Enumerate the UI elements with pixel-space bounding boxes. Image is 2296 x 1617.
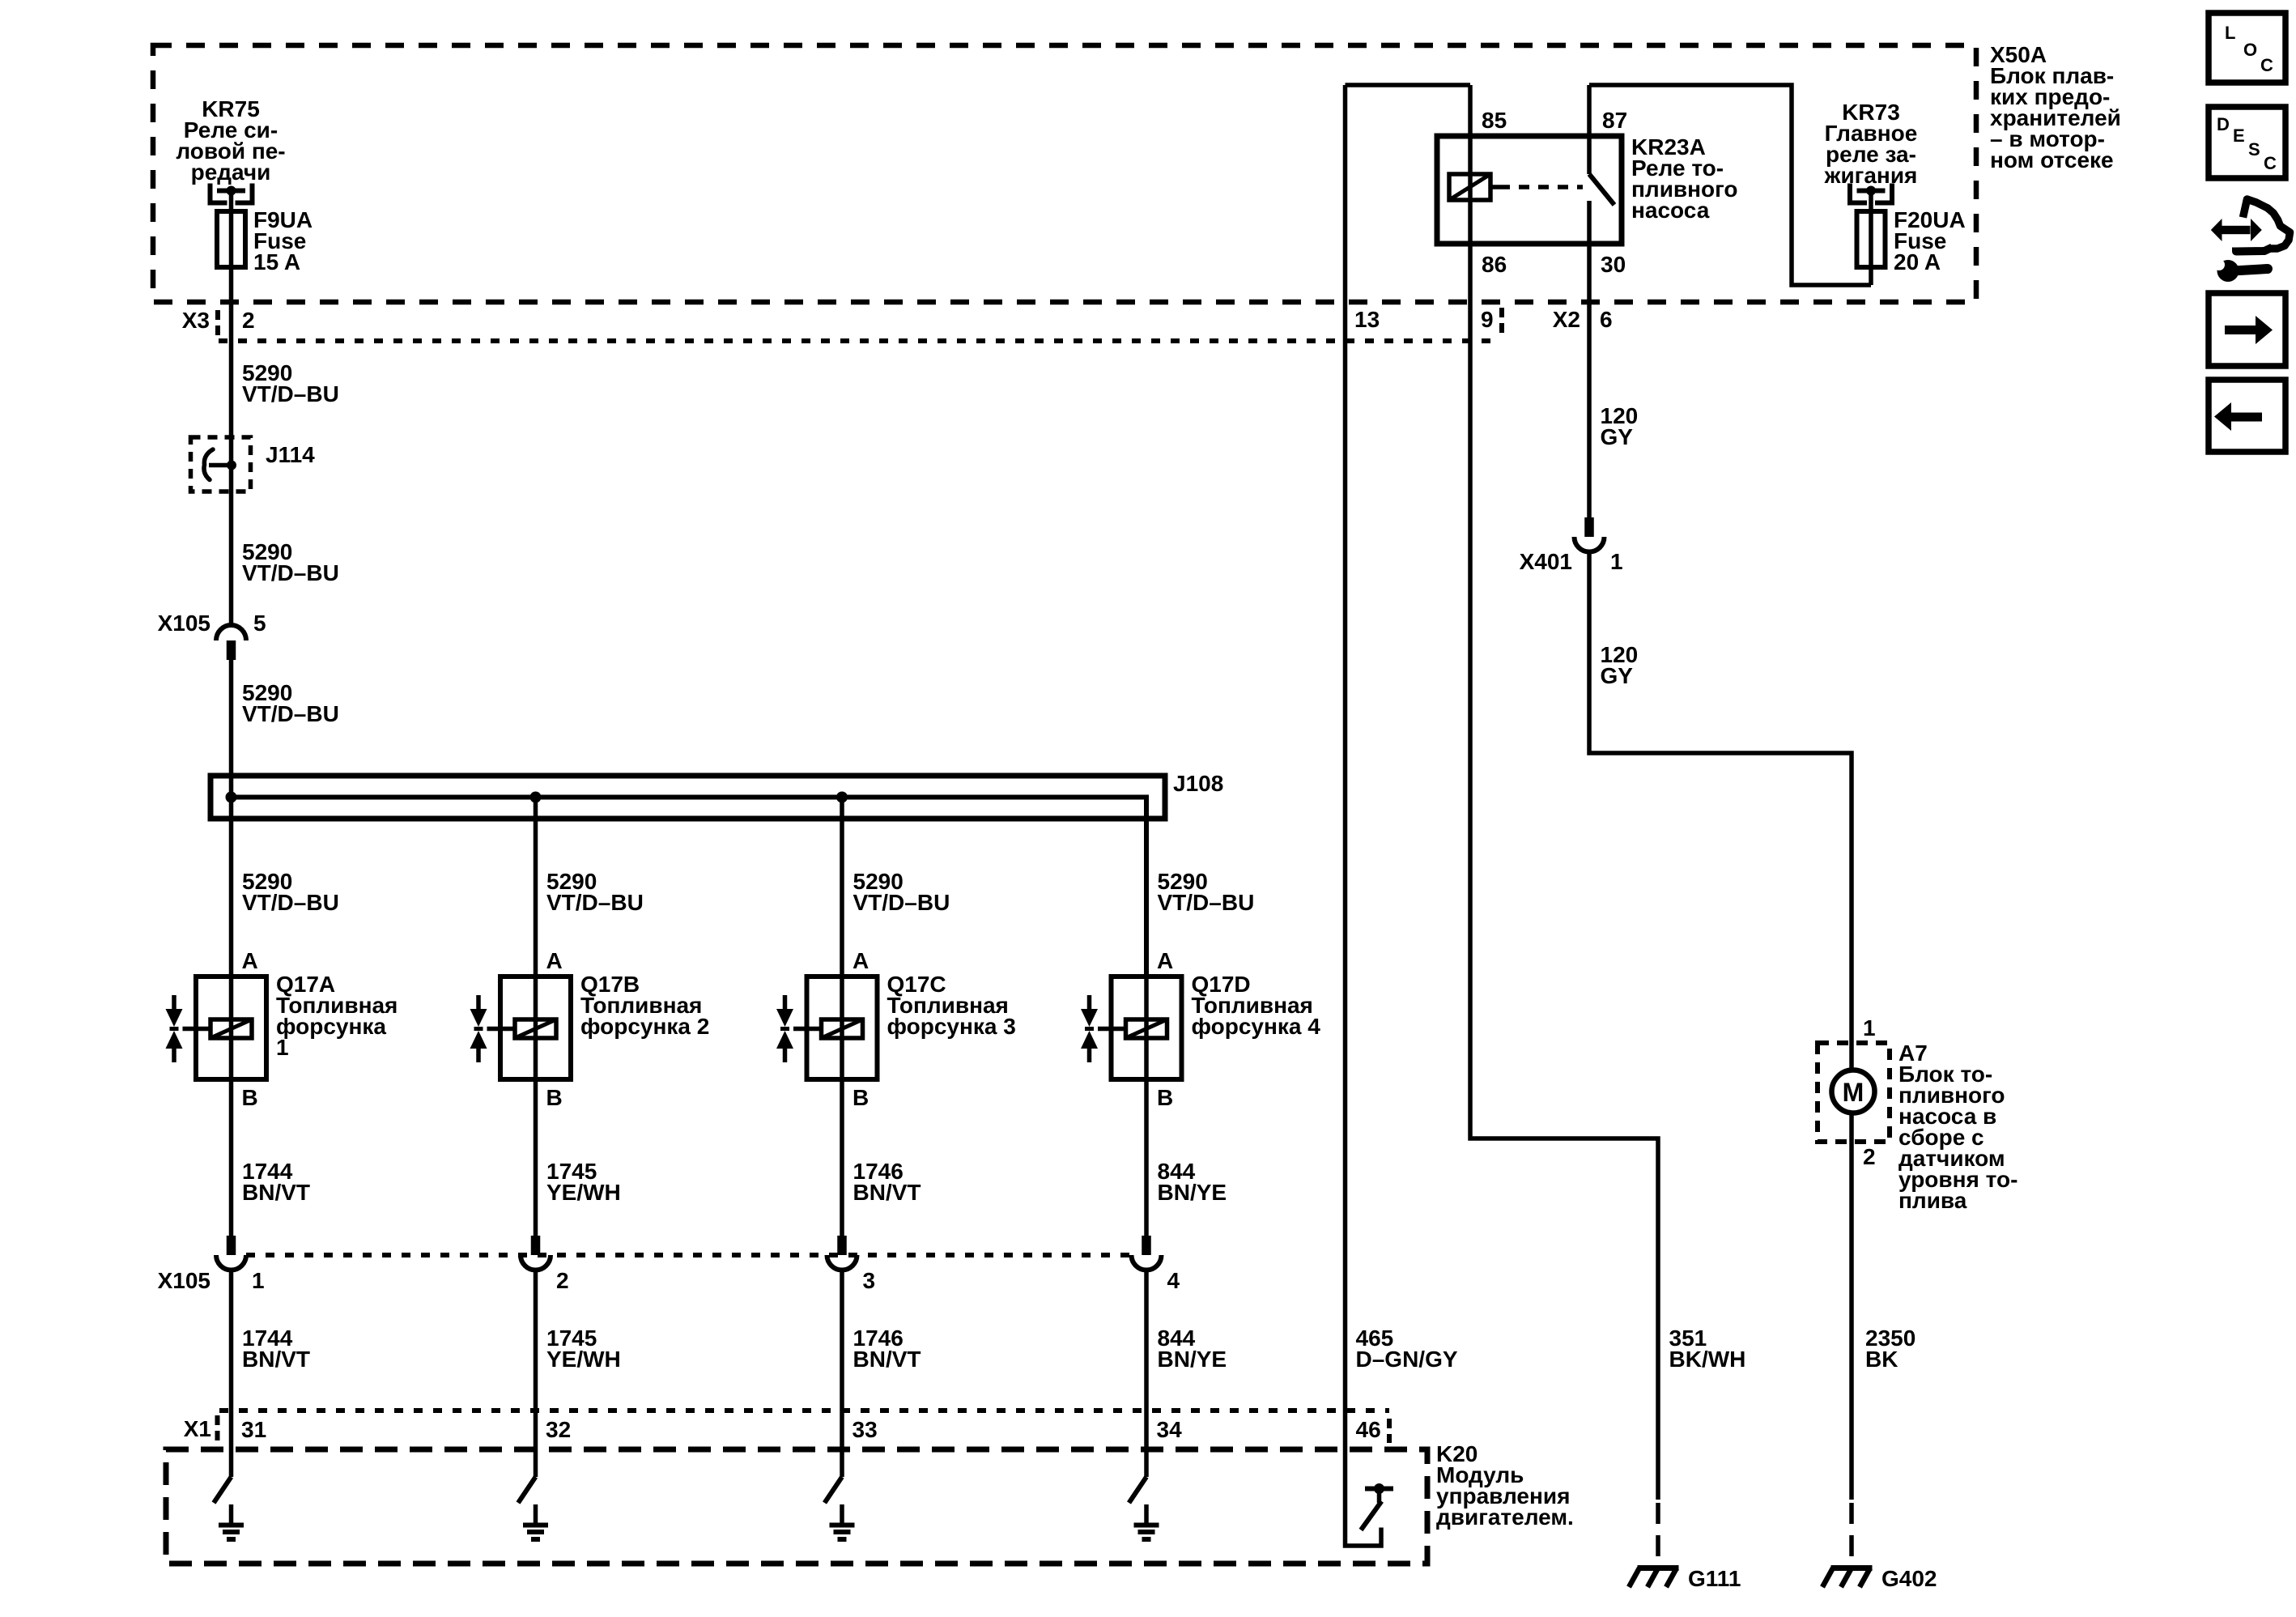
relay KR23A box bbox=[1437, 136, 1622, 244]
relay KR75 output terminal bbox=[210, 184, 227, 203]
K20 pin 46 switch lever bbox=[1361, 1501, 1382, 1530]
connector X105 pin 5 bbox=[216, 625, 246, 640]
wire 351 dashed segment bbox=[1656, 1503, 1660, 1565]
wire 844 injector Q17D to X105 bbox=[1144, 1079, 1149, 1236]
icon LOC box bbox=[2209, 13, 2285, 83]
svg-text:85: 85 bbox=[1482, 108, 1507, 133]
injector Q17D coil bbox=[1126, 1019, 1167, 1038]
icon vehicle outline bbox=[2243, 199, 2290, 249]
injector Q17D nozzle valve symbol bbox=[1087, 995, 1092, 1010]
svg-text:G111: G111 bbox=[1688, 1566, 1741, 1591]
injector Q17A nozzle link bbox=[183, 1027, 197, 1032]
svg-text:46: 46 bbox=[1356, 1417, 1381, 1442]
svg-text:X1: X1 bbox=[184, 1416, 211, 1441]
wire 5290 X105 pin 5 to splice J108 bbox=[229, 660, 234, 977]
svg-text:2: 2 bbox=[242, 308, 255, 333]
svg-text:1: 1 bbox=[276, 1035, 289, 1060]
wire 1746 injector Q17C to X105 bbox=[840, 1079, 844, 1236]
svg-text:X3: X3 bbox=[182, 308, 210, 333]
svg-text:1: 1 bbox=[1863, 1015, 1876, 1040]
K20 pin 46 switch T-bar bbox=[1365, 1487, 1393, 1491]
svg-text:YE/WH: YE/WH bbox=[546, 1347, 621, 1372]
connector X3 right bracket bbox=[1499, 308, 1504, 337]
connector X105 pin 1 bbox=[227, 1236, 236, 1255]
svg-text:5: 5 bbox=[253, 611, 266, 636]
svg-text:X2: X2 bbox=[1553, 307, 1580, 332]
connector X105 dashed line bbox=[246, 1253, 1132, 1257]
junction node injector 2 bbox=[530, 792, 542, 803]
svg-text:насоса: насоса bbox=[1631, 198, 1710, 223]
wire 2350 A7 to ground G402 bbox=[1849, 1142, 1854, 1500]
svg-text:GY: GY bbox=[1601, 663, 1634, 688]
svg-text:30: 30 bbox=[1601, 252, 1626, 277]
wire 844 X105 to K20 pin 34 bbox=[1144, 1270, 1149, 1478]
svg-text:VT/D–BU: VT/D–BU bbox=[242, 701, 339, 726]
svg-text:4: 4 bbox=[1167, 1268, 1180, 1293]
svg-text:M: M bbox=[1843, 1078, 1864, 1107]
svg-text:B: B bbox=[546, 1085, 563, 1110]
svg-text:VT/D–BU: VT/D–BU bbox=[546, 890, 644, 915]
svg-text:BN/VT: BN/VT bbox=[853, 1180, 921, 1205]
svg-text:9: 9 bbox=[1481, 307, 1494, 332]
injector Q17A box bbox=[196, 977, 266, 1079]
svg-text:редачи: редачи bbox=[191, 160, 271, 185]
svg-text:форсунка 4: форсунка 4 bbox=[1192, 1014, 1321, 1039]
icon arrow next box bbox=[2209, 293, 2285, 366]
svg-text:L: L bbox=[2225, 23, 2235, 43]
connector X105 pin 2 bbox=[531, 1236, 541, 1255]
injector Q17B box bbox=[500, 977, 571, 1079]
wire 1744 injector Q17A to X105 bbox=[229, 1079, 234, 1236]
svg-text:3: 3 bbox=[863, 1268, 876, 1293]
svg-text:S: S bbox=[2248, 139, 2260, 160]
injector Q17A internal wire bbox=[229, 977, 234, 1079]
splice clip J114 symbol bbox=[209, 463, 232, 468]
fuse block X50A dashed outline bbox=[153, 45, 1976, 302]
svg-text:C: C bbox=[2260, 55, 2273, 75]
ground G402 bbox=[1831, 1565, 1873, 1571]
injector Q17D nozzle link bbox=[1098, 1027, 1112, 1032]
junction node injector 1 bbox=[226, 792, 237, 803]
svg-text:33: 33 bbox=[852, 1417, 878, 1442]
wire 1746 X105 to K20 pin 33 bbox=[840, 1270, 844, 1478]
wire 5290 fuse F9UA to X105 pin 5 bbox=[229, 267, 234, 625]
injector Q17A coil bbox=[210, 1019, 252, 1038]
svg-text:B: B bbox=[1157, 1085, 1173, 1110]
wire 465 pin 13 to K20 pin 46 bbox=[1346, 85, 1382, 1546]
K20 driver switch 32 bbox=[518, 1477, 536, 1503]
connector X105 pin 4 bbox=[1142, 1236, 1151, 1255]
relay KR73 output terminal bbox=[1850, 184, 1867, 203]
signal ground inside K20 (31) bbox=[229, 1504, 234, 1524]
relay KR23A coil bbox=[1468, 85, 1473, 244]
svg-text:A: A bbox=[546, 948, 563, 973]
connector X1 left bracket bbox=[215, 1415, 220, 1441]
svg-text:BN/YE: BN/YE bbox=[1158, 1180, 1227, 1205]
injector Q17C box bbox=[807, 977, 878, 1079]
injector Q17D internal wire bbox=[1144, 977, 1149, 1079]
wire 120 X401 to fuel pump A7 bbox=[1589, 552, 1852, 1044]
wire 1745 X105 to K20 pin 32 bbox=[534, 1270, 538, 1478]
svg-text:13: 13 bbox=[1354, 307, 1380, 332]
signal ground inside K20 (34) bbox=[1144, 1504, 1149, 1524]
svg-text:20 A: 20 A bbox=[1894, 249, 1941, 274]
svg-text:15 A: 15 A bbox=[253, 249, 300, 274]
K20 driver switch 34 bbox=[1129, 1477, 1147, 1503]
svg-text:2: 2 bbox=[556, 1268, 569, 1293]
injector Q17B nozzle valve symbol bbox=[476, 995, 481, 1010]
injector Q17C internal wire bbox=[840, 977, 844, 1079]
svg-text:форсунка: форсунка bbox=[276, 1014, 386, 1039]
svg-text:B: B bbox=[852, 1085, 869, 1110]
injector Q17B nozzle link bbox=[487, 1027, 501, 1032]
connector X1 dotted line bbox=[219, 1408, 1389, 1413]
connector X401 pin 1 bbox=[1584, 517, 1594, 537]
svg-text:VT/D–BU: VT/D–BU bbox=[242, 381, 339, 406]
wire 2350 dashed segment bbox=[1849, 1503, 1854, 1565]
wire 120 relay pin 30 to X401 bbox=[1587, 302, 1592, 518]
svg-text:1: 1 bbox=[252, 1268, 265, 1293]
svg-text:34: 34 bbox=[1157, 1417, 1183, 1442]
wire top link pin13 to pin85 bbox=[1346, 83, 1471, 87]
svg-text:жигания: жигания bbox=[1824, 163, 1918, 188]
fuel pump module A7 dashed box bbox=[1818, 1043, 1890, 1142]
fuel pump motor M bbox=[1849, 1043, 1854, 1070]
module K20 dashed box bbox=[166, 1449, 1427, 1564]
svg-text:BK: BK bbox=[1865, 1347, 1898, 1372]
K20 driver switch 31 bbox=[214, 1477, 232, 1503]
signal ground inside K20 (32) bbox=[534, 1504, 538, 1524]
splice pack J108 bus bar bbox=[232, 798, 1147, 977]
wire 1744 X105 to K20 pin 31 bbox=[229, 1270, 234, 1478]
svg-text:G402: G402 bbox=[1881, 1566, 1937, 1591]
icon vehicle diagnostic double arrow bbox=[2222, 226, 2251, 234]
svg-text:D: D bbox=[2217, 114, 2230, 134]
svg-text:B: B bbox=[242, 1085, 258, 1110]
svg-text:ном отсеке: ном отсеке bbox=[1990, 147, 2114, 172]
svg-text:87: 87 bbox=[1602, 108, 1627, 133]
svg-text:1: 1 bbox=[1610, 549, 1623, 574]
svg-text:двигателем.: двигателем. bbox=[1436, 1504, 1574, 1530]
svg-text:D–GN/GY: D–GN/GY bbox=[1356, 1347, 1458, 1372]
icon DESC box bbox=[2209, 107, 2285, 178]
connector X3 dotted line bbox=[219, 338, 1500, 343]
splice clip J114 dashed box bbox=[191, 437, 251, 491]
icon wrench bbox=[2217, 260, 2239, 282]
splice pack J108 box bbox=[210, 776, 1165, 819]
wire 5290 J108 to injector Q17C bbox=[840, 798, 844, 977]
wire 5290 J108 to injector Q17B bbox=[534, 798, 538, 977]
svg-text:BN/YE: BN/YE bbox=[1158, 1347, 1227, 1372]
svg-text:BN/VT: BN/VT bbox=[853, 1347, 921, 1372]
svg-text:A: A bbox=[1157, 948, 1173, 973]
svg-text:31: 31 bbox=[241, 1417, 266, 1442]
svg-text:YE/WH: YE/WH bbox=[546, 1180, 621, 1205]
injector Q17D box bbox=[1112, 977, 1182, 1079]
svg-text:E: E bbox=[2233, 126, 2245, 146]
svg-text:X105: X105 bbox=[158, 1268, 210, 1293]
svg-text:GY: GY bbox=[1601, 424, 1634, 449]
connector X105 pin 3 bbox=[837, 1236, 847, 1255]
wire 1745 injector Q17B to X105 bbox=[534, 1079, 538, 1236]
relay KR23A switch lever bbox=[1589, 174, 1614, 205]
relay KR23A actuation dashed link bbox=[1490, 185, 1499, 189]
svg-text:VT/D–BU: VT/D–BU bbox=[853, 890, 950, 915]
svg-text:A: A bbox=[852, 948, 869, 973]
injector Q17A nozzle valve symbol bbox=[172, 995, 176, 1010]
svg-text:BN/VT: BN/VT bbox=[242, 1347, 310, 1372]
svg-text:2: 2 bbox=[1863, 1144, 1876, 1169]
injector Q17B internal wire bbox=[534, 977, 538, 1079]
connector X1 right bracket bbox=[1387, 1419, 1392, 1443]
injector Q17C nozzle valve symbol bbox=[783, 995, 788, 1010]
svg-text:форсунка 3: форсунка 3 bbox=[887, 1014, 1016, 1039]
svg-text:VT/D–BU: VT/D–BU bbox=[242, 890, 339, 915]
wire 351 relay pin 86 to ground G111 bbox=[1470, 244, 1658, 1500]
junction node injector 3 bbox=[836, 792, 848, 803]
svg-text:J108: J108 bbox=[1173, 771, 1223, 796]
svg-text:86: 86 bbox=[1482, 252, 1507, 277]
injector Q17C coil bbox=[822, 1019, 863, 1038]
fuse F9UA bbox=[229, 211, 234, 267]
svg-text:X105: X105 bbox=[158, 611, 210, 636]
svg-text:BK/WH: BK/WH bbox=[1669, 1347, 1746, 1372]
svg-text:O: O bbox=[2243, 40, 2257, 60]
wire 5290 J108 to injector Q17D bbox=[1144, 798, 1149, 977]
injector Q17C nozzle link bbox=[793, 1027, 807, 1032]
svg-text:VT/D–BU: VT/D–BU bbox=[1158, 890, 1255, 915]
injector Q17B coil bbox=[515, 1019, 556, 1038]
signal ground inside K20 (33) bbox=[840, 1504, 844, 1524]
svg-text:BN/VT: BN/VT bbox=[242, 1180, 310, 1205]
svg-text:J114: J114 bbox=[266, 442, 315, 467]
svg-text:A: A bbox=[242, 948, 258, 973]
K20 pin 46 switch node bbox=[1374, 1483, 1384, 1494]
svg-text:плива: плива bbox=[1898, 1188, 1967, 1213]
svg-text:VT/D–BU: VT/D–BU bbox=[242, 560, 339, 585]
connector X3 left bracket bbox=[215, 310, 220, 337]
svg-text:32: 32 bbox=[546, 1417, 571, 1442]
K20 driver switch 33 bbox=[825, 1477, 843, 1503]
relay KR23A pin 87 stub bbox=[1587, 85, 1592, 174]
wire KR73 fuse to relay KR23A pin 87 bbox=[1589, 85, 1871, 285]
fuse F20UA bbox=[1869, 211, 1873, 285]
svg-text:6: 6 bbox=[1600, 307, 1613, 332]
icon arrow previous box bbox=[2209, 380, 2285, 452]
relay KR23A pin 30 stub bbox=[1587, 201, 1592, 302]
svg-text:форсунка 2: форсунка 2 bbox=[580, 1014, 709, 1039]
ground G111 bbox=[1638, 1565, 1679, 1571]
svg-text:C: C bbox=[2264, 153, 2277, 173]
svg-text:X401: X401 bbox=[1520, 549, 1572, 574]
